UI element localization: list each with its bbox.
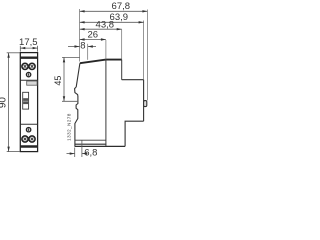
ext lines <box>7 52 20 54</box>
screw terminal bottom-right <box>29 136 35 142</box>
inner bottom line <box>75 139 106 141</box>
screw terminal top-right <box>29 63 35 69</box>
staircase shelf <box>122 79 144 81</box>
svg-text:90: 90 <box>0 97 9 109</box>
front slant edge <box>76 63 80 87</box>
inner vertical edge (26 ref) <box>105 40 107 60</box>
svg-text:1332_N278: 1332_N278 <box>67 113 72 141</box>
back face <box>143 80 145 122</box>
screw terminal bottom-left <box>22 136 28 142</box>
divider line upper <box>20 79 37 81</box>
staircase vertical (43,8 ref) <box>121 29 123 59</box>
device outline front view <box>20 53 37 152</box>
small screw top-centre <box>26 72 30 76</box>
dim line 90 <box>8 53 10 152</box>
bottom surface lower line <box>75 145 126 147</box>
dim 26 <box>80 29 106 40</box>
arrowheads 90 <box>7 53 9 58</box>
svg-text:26: 26 <box>88 29 99 40</box>
switch lever frame <box>23 92 29 109</box>
lever hook on front <box>75 87 78 96</box>
label window <box>27 81 37 85</box>
dim 63,9 <box>80 12 144 23</box>
ext ticks <box>19 46 21 52</box>
front face below lever <box>75 96 78 146</box>
arrowheads 17,5 <box>20 47 25 49</box>
ext 63,9 <box>143 21 145 80</box>
ext 8 right <box>87 44 89 60</box>
dim 8 (arrows outside) <box>68 41 96 52</box>
dim line 17,5 <box>20 47 37 49</box>
divider line lower <box>20 123 37 125</box>
svg-text:45: 45 <box>53 76 63 86</box>
svg-text:43,8: 43,8 <box>96 19 115 30</box>
top cap thick line <box>20 57 37 59</box>
bottom surface upper line <box>75 143 107 145</box>
lever grip <box>23 98 28 104</box>
svg-text:67,8: 67,8 <box>112 1 131 12</box>
top surface (thick, slight slant) <box>80 60 122 64</box>
DIN clip lug <box>144 101 147 107</box>
svg-text:6,8: 6,8 <box>84 148 97 159</box>
shared front ext line <box>79 9 81 62</box>
svg-text:17,5: 17,5 <box>19 37 38 48</box>
small screw bottom-centre <box>26 128 30 132</box>
bottom step back <box>125 121 144 146</box>
ext 67,8 <box>146 10 148 101</box>
svg-text:8: 8 <box>80 41 85 52</box>
bottom cap thick line <box>20 145 37 147</box>
dim 67,8 <box>80 1 148 12</box>
dim 43,8 <box>80 19 122 30</box>
screw terminal top-left <box>22 63 28 69</box>
